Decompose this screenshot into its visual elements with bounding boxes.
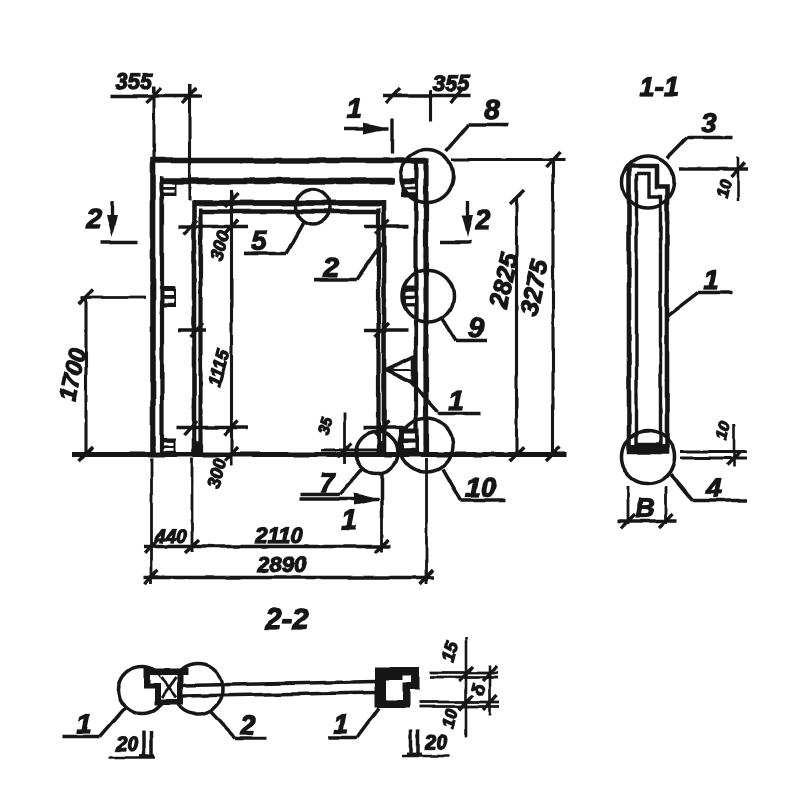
dim 355 left xyxy=(111,84,202,200)
panel section inner contour xyxy=(637,174,661,445)
svg-text:20: 20 xyxy=(115,734,138,756)
label 1 with open arrowhead xyxy=(386,358,413,384)
dim B xyxy=(617,486,677,528)
anchor mark left middle xyxy=(163,286,176,307)
dim 10 top of section xyxy=(679,157,748,201)
detail circle 8 xyxy=(401,150,454,203)
dim 2825 xyxy=(510,190,524,461)
section marker 2 right xyxy=(440,201,471,242)
svg-text:2110: 2110 xyxy=(254,523,303,548)
svg-text:1: 1 xyxy=(346,93,362,124)
svg-text:4: 4 xyxy=(705,473,721,503)
svg-text:355: 355 xyxy=(116,69,153,94)
svg-text:2: 2 xyxy=(474,204,491,235)
door frame left member bottom block xyxy=(193,441,203,454)
svg-text:20: 20 xyxy=(424,732,447,754)
label 4 xyxy=(671,474,747,501)
door frame left member inner line xyxy=(198,208,202,454)
label 1 section xyxy=(666,293,732,318)
dim line 440 / 2110 xyxy=(144,540,391,553)
label 7 xyxy=(301,468,363,495)
panel right inner edge xyxy=(414,158,418,457)
svg-text:5: 5 xyxy=(251,225,267,256)
door frame clip profile xyxy=(144,669,189,706)
detail circle 5 xyxy=(296,189,331,224)
hinge tick middle right xyxy=(364,323,408,337)
detail circle 10 xyxy=(399,418,453,472)
right extension line top xyxy=(452,158,565,161)
svg-text:В: В xyxy=(636,493,655,523)
svg-text:10: 10 xyxy=(465,472,497,503)
right end block profile xyxy=(375,668,420,708)
svg-text:2-2: 2-2 xyxy=(264,603,309,636)
label 1 left of section 2-2 xyxy=(63,708,125,737)
detail circle 3 xyxy=(622,156,674,208)
door frame head outer line xyxy=(192,200,385,206)
dim 35 xyxy=(321,413,384,464)
label 5 xyxy=(244,221,304,254)
svg-text:2: 2 xyxy=(322,252,339,283)
panel section bottom bar xyxy=(631,445,665,454)
hinge tick bottom left xyxy=(176,421,248,435)
section marker 1 bottom xyxy=(300,474,382,518)
svg-text:1: 1 xyxy=(333,709,348,739)
detail circle left 1 xyxy=(119,667,166,714)
hinge tick middle left xyxy=(178,323,206,337)
hinge tick bottom right xyxy=(364,421,408,435)
panel top inner edge xyxy=(160,178,394,184)
label 10 xyxy=(443,469,506,501)
panel right outer edge xyxy=(423,158,428,457)
anchor mark right top xyxy=(401,178,418,197)
svg-text:440: 440 xyxy=(154,527,187,548)
detail circle left 2 xyxy=(173,664,223,714)
panel top outer edge xyxy=(151,158,429,164)
door frame right member outer line xyxy=(382,200,387,454)
door frame right member bottom block xyxy=(377,441,386,454)
svg-text:1: 1 xyxy=(76,709,91,739)
label 2 of section 2-2 xyxy=(211,712,267,738)
detail circle 7 xyxy=(356,432,398,474)
svg-text:1: 1 xyxy=(703,265,718,295)
anchor mark left top xyxy=(163,179,176,196)
svg-text:2: 2 xyxy=(239,710,255,740)
door frame left member outer line xyxy=(192,200,197,454)
panel bottom line xyxy=(72,452,567,457)
detail circle 4 xyxy=(622,431,675,484)
bottom dimension extension lines xyxy=(152,458,427,584)
label 8 xyxy=(446,125,508,152)
hinge tick top left xyxy=(178,220,248,234)
dims 15 / thickness / 10 xyxy=(419,637,500,737)
panel slab lines xyxy=(184,682,377,686)
svg-text:2890: 2890 xyxy=(257,552,308,577)
svg-text:3: 3 xyxy=(701,108,716,138)
svg-text:7: 7 xyxy=(319,468,336,498)
dim 10 bottom of section xyxy=(680,424,747,467)
hinge tick top right xyxy=(364,220,408,234)
svg-text:1: 1 xyxy=(341,504,357,535)
panel outer left edge xyxy=(150,158,156,457)
anchor mark right bottom xyxy=(399,428,419,454)
anchor mark right middle xyxy=(403,286,418,307)
section marker 1 top xyxy=(344,118,393,154)
weld mark 20 left xyxy=(109,731,155,758)
dim 3275 xyxy=(546,152,560,461)
label 1 right of section 2-2 xyxy=(328,708,379,738)
anchor mark left bottom xyxy=(163,438,176,454)
svg-text:2: 2 xyxy=(85,203,102,234)
door frame right member inner line xyxy=(376,208,380,454)
svg-text:1-1: 1-1 xyxy=(639,72,678,102)
dim line 2890 xyxy=(144,570,434,584)
label 3 xyxy=(667,138,733,159)
dim 1700 xyxy=(79,290,146,461)
vertical dimension chain line 300/1115/300 xyxy=(225,190,238,466)
panel inner left edge xyxy=(160,176,164,457)
panel section outer contour xyxy=(629,166,667,452)
door frame head inner line xyxy=(200,209,378,213)
svg-text:355: 355 xyxy=(433,71,470,96)
weld mark 20 right xyxy=(402,730,449,756)
svg-text:8: 8 xyxy=(484,94,500,125)
svg-text:1: 1 xyxy=(448,385,464,416)
section marker 2 left xyxy=(101,201,137,242)
label 9 xyxy=(442,318,487,341)
dim 355 right xyxy=(383,88,471,122)
detail circle 9 xyxy=(402,270,454,322)
label 2 leader xyxy=(314,243,382,280)
svg-text:9: 9 xyxy=(468,312,484,343)
wood block with cross xyxy=(161,675,178,700)
